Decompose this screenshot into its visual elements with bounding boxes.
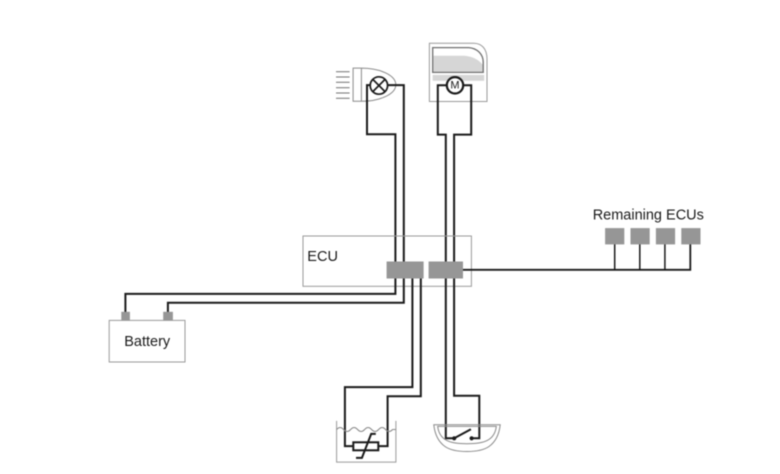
switch housing outer [434,425,500,452]
battery box [109,320,185,362]
svg-text:Battery: Battery [124,334,171,350]
window glass fill [433,56,482,72]
remaining ECU connector 2 [631,228,650,244]
coolant tank [337,421,396,462]
wire: lamp right lead to ECU connector A pin 2 [387,85,404,262]
svg-text:ECU: ECU [307,249,338,265]
window lower band [433,75,485,81]
svg-text:Remaining ECUs: Remaining ECUs [593,207,704,223]
wire: ECU connector A pin 4 to thermistor right [378,278,421,446]
window frame [433,48,484,73]
wire: ECU connector A pin 2 to battery terminal 2 [168,278,404,313]
wire: motor right lead to ECU connector B pin 2 [454,85,471,262]
switch S1 lever [454,429,471,438]
bus drop wire: remaining ECU 2 [639,244,641,270]
battery terminal 1 [121,312,130,321]
bus drop wire: remaining ECU 3 [664,244,666,270]
remaining ECU connector 1 [605,228,624,244]
headlamp rays [336,72,350,99]
wire: ECU connector A pin 1 to battery terminal 1 [125,278,395,313]
ECU connector B [429,262,463,279]
remaining ECU connector 3 [656,228,675,244]
wire: motor left lead to ECU connector B pin 1 [438,85,448,262]
door window outline [429,43,487,101]
wire: ECU connector B pin 4 to switch right contact [454,278,479,438]
headlamp housing [353,68,396,101]
switch S1 contacts [452,436,456,440]
motor M [447,77,463,93]
thermistor RT diagonal [356,434,376,458]
coolant level wave [337,428,396,432]
switch housing inner [438,426,497,443]
ECU connector A [387,262,424,279]
lamp bulb [370,77,387,94]
ECU box [303,236,471,286]
bus wire: ECU connector B to remaining ECUs [463,244,690,270]
wire: ECU connector A pin 3 to thermistor left [345,278,413,446]
battery terminal 2 [163,312,173,321]
wire: lamp left lead to ECU connector A pin 1 [367,85,395,262]
bus drop wire: remaining ECU 1 [614,244,616,270]
wire: ECU connector B pin 3 to switch left contact [446,278,454,438]
svg-text:M: M [450,80,459,92]
remaining ECU connector 4 [681,228,700,244]
thermistor RT body [353,442,378,450]
